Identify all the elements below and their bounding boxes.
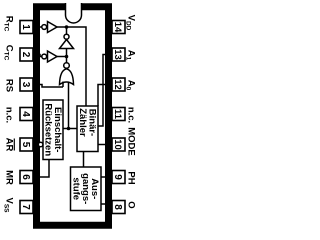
- IC package outline U1: [37, 7, 109, 226]
- inverter G1 triangle: [48, 22, 58, 33]
- svg-text:MR: MR: [4, 170, 15, 185]
- junction dot reset net: [67, 127, 71, 131]
- pin 12 box: [112, 78, 125, 91]
- svg-text:O: O: [126, 201, 137, 208]
- wire output stage to pin8 O: [101, 203, 112, 205]
- pin 5 box: [20, 138, 33, 151]
- AR input bubble: [38, 142, 43, 147]
- wire node A horizontal: [57, 27, 86, 106]
- svg-text:9: 9: [112, 174, 123, 180]
- svg-text:14: 14: [112, 22, 123, 33]
- pin 3 box: [20, 78, 33, 91]
- svg-text:5: 5: [20, 142, 31, 148]
- node B junction dot: [65, 55, 69, 59]
- NOR gate G4 body: [60, 69, 74, 85]
- svg-text:12: 12: [112, 79, 123, 90]
- svg-text:1: 1: [20, 24, 31, 30]
- pin 14 box: [112, 21, 125, 34]
- wire node B to NOR bubble: [66, 57, 68, 63]
- feedback inverter G3 bubble: [64, 34, 69, 39]
- wire pin3 RS to NOR input: [33, 85, 63, 88]
- power-on reset block: [43, 100, 63, 160]
- svg-text:Rücksetzen: Rücksetzen: [43, 103, 54, 156]
- svg-text:Zähler: Zähler: [77, 108, 88, 137]
- svg-text:2: 2: [20, 52, 31, 58]
- pin 4 box: [20, 108, 33, 121]
- wire reset net: POR out to counter: [63, 128, 77, 130]
- wire G3 input down to node B: [66, 49, 68, 57]
- wire output stage to pin9 PH: [101, 176, 112, 178]
- feedback inverter G3 triangle: [60, 40, 74, 49]
- pin 7 box: [20, 201, 33, 214]
- svg-text:4: 4: [20, 111, 31, 117]
- output stage block: [71, 167, 102, 211]
- inverter G2 input bubble: [42, 54, 47, 59]
- NOR input left stub: [62, 82, 64, 88]
- svg-text:3: 3: [20, 82, 31, 88]
- svg-text:6: 6: [20, 174, 31, 180]
- package pin-1 notch: [66, 3, 82, 23]
- svg-text:RS: RS: [4, 79, 15, 92]
- svg-text:stufe: stufe: [70, 177, 81, 200]
- binary counter block: [77, 106, 98, 152]
- inverter G2 triangle: [48, 51, 58, 62]
- inverter G1 input bubble: [42, 25, 47, 30]
- wire pin2 to inverter: [33, 55, 42, 57]
- wire G2 output to node B: [57, 56, 67, 58]
- svg-text:11: 11: [112, 109, 123, 120]
- svg-text:n.c.: n.c.: [4, 107, 15, 123]
- NOR input right wire down to reset net: [68, 82, 70, 129]
- wire pin5 AR to POR block: [33, 144, 38, 146]
- svg-text:MODE: MODE: [126, 127, 137, 156]
- svg-text:8: 8: [112, 204, 123, 210]
- svg-text:AR: AR: [4, 138, 15, 152]
- wire pin12 A0 to counter: [98, 85, 112, 107]
- pin 9 box: [112, 171, 125, 184]
- svg-text:7: 7: [20, 204, 31, 210]
- svg-text:n.c.: n.c.: [126, 107, 137, 123]
- NOR gate G4 bubble: [64, 63, 70, 69]
- wire pin6 MR to POR block bottom: [33, 160, 49, 178]
- node A junction dot: [65, 25, 69, 29]
- pin 10 box: [112, 138, 125, 151]
- pin 6 box: [20, 171, 33, 184]
- wire node A to feedback bubble: [66, 27, 68, 34]
- pin 11 box: [112, 108, 125, 121]
- wire pin13 A1 to counter: [98, 55, 112, 127]
- svg-text:10: 10: [112, 139, 123, 150]
- pin 13 box: [112, 48, 125, 61]
- pin 2 box: [20, 48, 33, 61]
- pin 1 box: [20, 21, 33, 34]
- wire pin10 MODE to counter: [98, 144, 112, 146]
- svg-text:PH: PH: [126, 171, 137, 184]
- wire pin1 to inverter: [33, 26, 42, 28]
- pin 8 box: [112, 201, 125, 214]
- wire counter to output stage: [83, 152, 85, 168]
- svg-text:13: 13: [112, 49, 123, 60]
